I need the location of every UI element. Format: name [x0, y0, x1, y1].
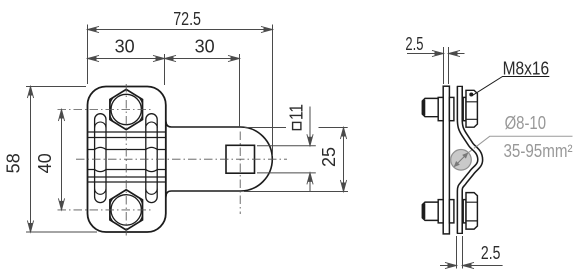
svg-text:Ø8-10: Ø8-10	[505, 113, 546, 133]
washer left	[438, 97, 443, 120]
back plate (flat)	[443, 86, 449, 234]
square hole 11x11 in tab	[226, 145, 255, 173]
washer right of back plate	[449, 200, 454, 223]
hexagon corner chamfer arcs	[110, 97, 143, 222]
internal plate edge lines	[88, 131, 166, 133]
head facet lines	[466, 202, 477, 221]
stub chamfer line	[422, 203, 425, 219]
svg-text:M8x16: M8x16	[503, 59, 549, 79]
body right edge over tab	[165, 120, 167, 198]
screw head	[466, 193, 477, 230]
right slot	[146, 114, 157, 203]
clamp body (rounded rectangle)	[88, 87, 166, 233]
grey leader segment visible across dome interior	[474, 146, 477, 148]
top bolt assembly (side)	[422, 90, 477, 127]
right slot inner bottom arc	[146, 189, 157, 195]
tab (flat connection lug with rounded end)	[166, 122, 272, 197]
wave plate (S-shaped clamping plate)	[460, 86, 480, 233]
bottom bolt assembly (side)	[422, 193, 477, 230]
dimension 40	[61, 110, 63, 210]
right slot inner top arc	[146, 122, 157, 128]
svg-text:72.5: 72.5	[173, 9, 201, 29]
dimension square 11	[257, 107, 316, 192]
svg-text:35-95mm²: 35-95mm²	[504, 141, 573, 161]
svg-text:30: 30	[195, 36, 215, 56]
bottom bolt hexagon	[110, 190, 143, 230]
washer under head	[463, 97, 466, 120]
conductor diameter arrow	[455, 154, 467, 166]
wave plate end caps	[457, 86, 463, 233]
centerline vertical through bolts	[125, 84, 127, 236]
thread stub	[422, 98, 438, 116]
top bolt inscribed circle	[111, 94, 141, 124]
svg-text:2.5: 2.5	[405, 34, 423, 54]
head facet lines	[466, 102, 477, 120]
washer under head	[463, 200, 466, 223]
dimension 72.5	[88, 25, 273, 157]
centerline tab vertical	[239, 132, 241, 215]
leader dot on head	[469, 93, 473, 97]
svg-text:25: 25	[319, 147, 339, 167]
top bolt hexagon	[110, 89, 143, 129]
dimension 2.5 bottom (plate thickness)	[440, 236, 503, 269]
svg-text:58: 58	[4, 153, 24, 173]
label M8x16 with leader	[472, 77, 549, 96]
stub chamfer line	[422, 100, 425, 116]
bottom bolt inscribed circle	[111, 195, 141, 225]
left slot inner top arc	[95, 122, 106, 128]
dimension 25	[244, 128, 348, 192]
left slot inner bottom arc	[95, 189, 106, 195]
dimension 58	[26, 87, 97, 233]
svg-text:2.5: 2.5	[481, 243, 501, 263]
washer right of back plate	[449, 97, 454, 120]
centerline bottom bolt horizontal	[58, 209, 152, 211]
dimension 30 (left) and 30 (right)	[88, 54, 240, 126]
leader line for conductor labels	[468, 136, 572, 153]
washer left	[438, 200, 443, 223]
left slot	[95, 114, 106, 203]
centerline main horizontal axis	[76, 158, 287, 160]
svg-text:40: 40	[35, 153, 55, 173]
svg-text:11: 11	[287, 104, 307, 120]
dimension 2.5 top (plate thickness)	[407, 47, 465, 84]
conductor cross-section (grey circle)	[451, 150, 472, 171]
centerline top bolt horizontal	[58, 109, 152, 111]
thread stub	[422, 202, 438, 220]
svg-text:30: 30	[115, 36, 135, 56]
screw head	[466, 90, 477, 127]
